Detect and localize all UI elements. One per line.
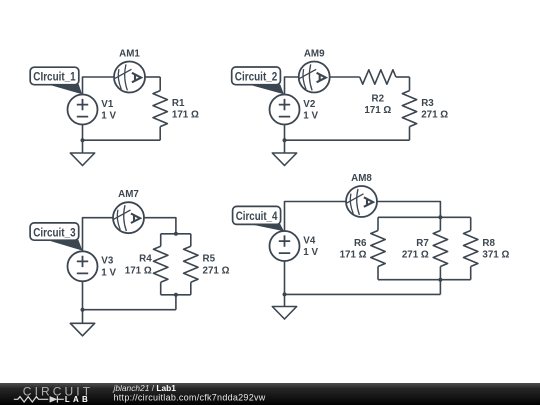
svg-text:1 V: 1 V bbox=[303, 111, 318, 122]
svg-text:R7: R7 bbox=[416, 238, 429, 249]
ground symbol circuit 3 bbox=[70, 323, 94, 336]
svg-text:V2: V2 bbox=[303, 99, 316, 110]
junction parallel bottom node circuit 4 bbox=[438, 278, 442, 282]
node Circuit_4 / circuit 4 bbox=[233, 173, 510, 319]
wire V4 top to AM8 left bbox=[285, 202, 347, 232]
wire parallel bottom rail circuit 3 bbox=[161, 294, 191, 296]
voltage source V2 bbox=[270, 95, 300, 125]
resistor R2 bbox=[360, 70, 396, 84]
wire AM1 right to R1 top bbox=[145, 76, 160, 78]
svg-text:V4: V4 bbox=[303, 235, 316, 246]
svg-text:CIrcuit_1: CIrcuit_1 bbox=[33, 72, 76, 84]
svg-text:1 V: 1 V bbox=[101, 267, 116, 278]
ammeter AM8 bbox=[346, 186, 377, 217]
wire AM9 right to R2 left bbox=[330, 76, 360, 78]
resistor R1 bbox=[159, 77, 161, 91]
ammeter AM1 bbox=[114, 62, 145, 93]
svg-text:R8: R8 bbox=[482, 238, 495, 249]
svg-text:AM8: AM8 bbox=[351, 173, 372, 184]
svg-text:Circuit_3: Circuit_3 bbox=[33, 227, 75, 239]
wire parallel top rail circuit 3 bbox=[161, 233, 191, 235]
svg-text:171 Ω: 171 Ω bbox=[340, 250, 367, 261]
wire V1 bottom lead bbox=[82, 125, 84, 141]
svg-text:R4: R4 bbox=[139, 254, 152, 265]
svg-text:1 V: 1 V bbox=[303, 247, 318, 258]
wire to ground circuit 3 bbox=[82, 310, 84, 324]
ground symbol circuit 1 bbox=[70, 153, 94, 166]
junction parallel bottom node circuit 3 bbox=[174, 293, 178, 297]
node Circuit_3 / circuit 3 bbox=[30, 189, 229, 336]
svg-text:http://circuitlab.com/cfk7ndda: http://circuitlab.com/cfk7ndda292vw bbox=[114, 392, 266, 402]
junction parallel top node circuit 4 bbox=[438, 215, 442, 219]
svg-text:271 Ω: 271 Ω bbox=[402, 250, 429, 261]
svg-text:AM1: AM1 bbox=[119, 49, 140, 60]
node Circuit_2 / circuit 2 bbox=[232, 49, 449, 166]
voltage source V4 bbox=[270, 231, 300, 261]
footer bar bbox=[0, 383, 540, 405]
wire V1 top to AM1 left bbox=[83, 77, 115, 95]
svg-text:AM9: AM9 bbox=[304, 49, 325, 60]
svg-text:Circuit_2: Circuit_2 bbox=[235, 71, 277, 83]
svg-text:V3: V3 bbox=[101, 256, 114, 267]
resistor R4 bbox=[160, 234, 162, 247]
voltage source V1 bbox=[68, 95, 98, 125]
svg-text:371 Ω: 371 Ω bbox=[482, 250, 509, 261]
svg-text:R3: R3 bbox=[421, 98, 434, 109]
resistor R6 bbox=[377, 217, 379, 230]
ground symbol circuit 2 bbox=[272, 153, 296, 166]
wire bottom rail circuit 2 bbox=[285, 139, 410, 141]
flag label CIrcuit_1 bbox=[30, 67, 82, 94]
resistor R3 bbox=[409, 77, 411, 91]
wire bottom rail circuit 4 bbox=[285, 293, 441, 295]
svg-text:171 Ω: 171 Ω bbox=[125, 265, 152, 276]
svg-text:R2: R2 bbox=[372, 93, 385, 104]
wire parallel to bottom rail circuit 4 bbox=[439, 280, 441, 295]
wire to ground circuit 1 bbox=[82, 140, 84, 153]
svg-text:R6: R6 bbox=[354, 238, 367, 249]
node Circuit_1 / circuit 1 bbox=[30, 49, 199, 166]
ammeter AM7 bbox=[113, 202, 144, 233]
resistor R8 bbox=[470, 217, 472, 230]
wire V2 bottom lead bbox=[284, 125, 286, 141]
wire parallel top rail circuit 4 bbox=[378, 216, 471, 218]
wire bottom rail circuit 3 bbox=[83, 309, 176, 311]
svg-text:171 Ω: 171 Ω bbox=[364, 105, 391, 116]
svg-text:Circuit_4: Circuit_4 bbox=[236, 211, 278, 223]
junction circuit 1 ground node bbox=[81, 138, 85, 142]
wire to ground circuit 2 bbox=[284, 140, 286, 153]
resistor R5 bbox=[190, 234, 192, 247]
wire V4 bottom lead bbox=[284, 261, 286, 294]
svg-text:V1: V1 bbox=[101, 99, 114, 110]
junction circuit 3 ground node bbox=[81, 308, 85, 312]
svg-text:271 Ω: 271 Ω bbox=[203, 265, 230, 276]
flag label Circuit_3 bbox=[30, 223, 82, 251]
ammeter AM9 bbox=[299, 62, 330, 93]
junction circuit 2 ground node bbox=[283, 138, 287, 142]
wire R2 right to R3 top bbox=[396, 76, 410, 78]
CircuitLab logo bbox=[14, 385, 93, 405]
wire AM7 right to parallel top node bbox=[144, 218, 176, 234]
flag label Circuit_4 bbox=[233, 206, 284, 231]
voltage source V3 bbox=[68, 251, 98, 281]
svg-text:171 Ω: 171 Ω bbox=[172, 110, 199, 121]
resistor R7 bbox=[439, 217, 441, 230]
svg-text:R5: R5 bbox=[203, 254, 216, 265]
wire V3 top to AM7 left bbox=[83, 218, 114, 252]
junction parallel top node circuit 3 bbox=[174, 232, 178, 236]
svg-text:LAB: LAB bbox=[65, 395, 91, 404]
wire AM8 right to parallel top node bbox=[377, 202, 440, 218]
wire bottom rail circuit 1 bbox=[83, 139, 161, 141]
svg-text:AM7: AM7 bbox=[118, 189, 139, 200]
wire to ground circuit 4 bbox=[284, 294, 286, 306]
svg-text:R1: R1 bbox=[172, 98, 185, 109]
wire parallel to bottom rail circuit 3 bbox=[175, 295, 177, 310]
svg-text:271 Ω: 271 Ω bbox=[421, 110, 448, 121]
svg-text:1 V: 1 V bbox=[101, 111, 116, 122]
wire V2 top to AM9 left bbox=[285, 77, 299, 95]
wire V3 bottom lead bbox=[82, 281, 84, 309]
wire parallel bottom rail circuit 4 bbox=[378, 279, 471, 281]
flag label Circuit_2 bbox=[232, 67, 284, 94]
ground symbol circuit 4 bbox=[272, 307, 296, 320]
junction circuit 4 ground node bbox=[283, 292, 287, 296]
